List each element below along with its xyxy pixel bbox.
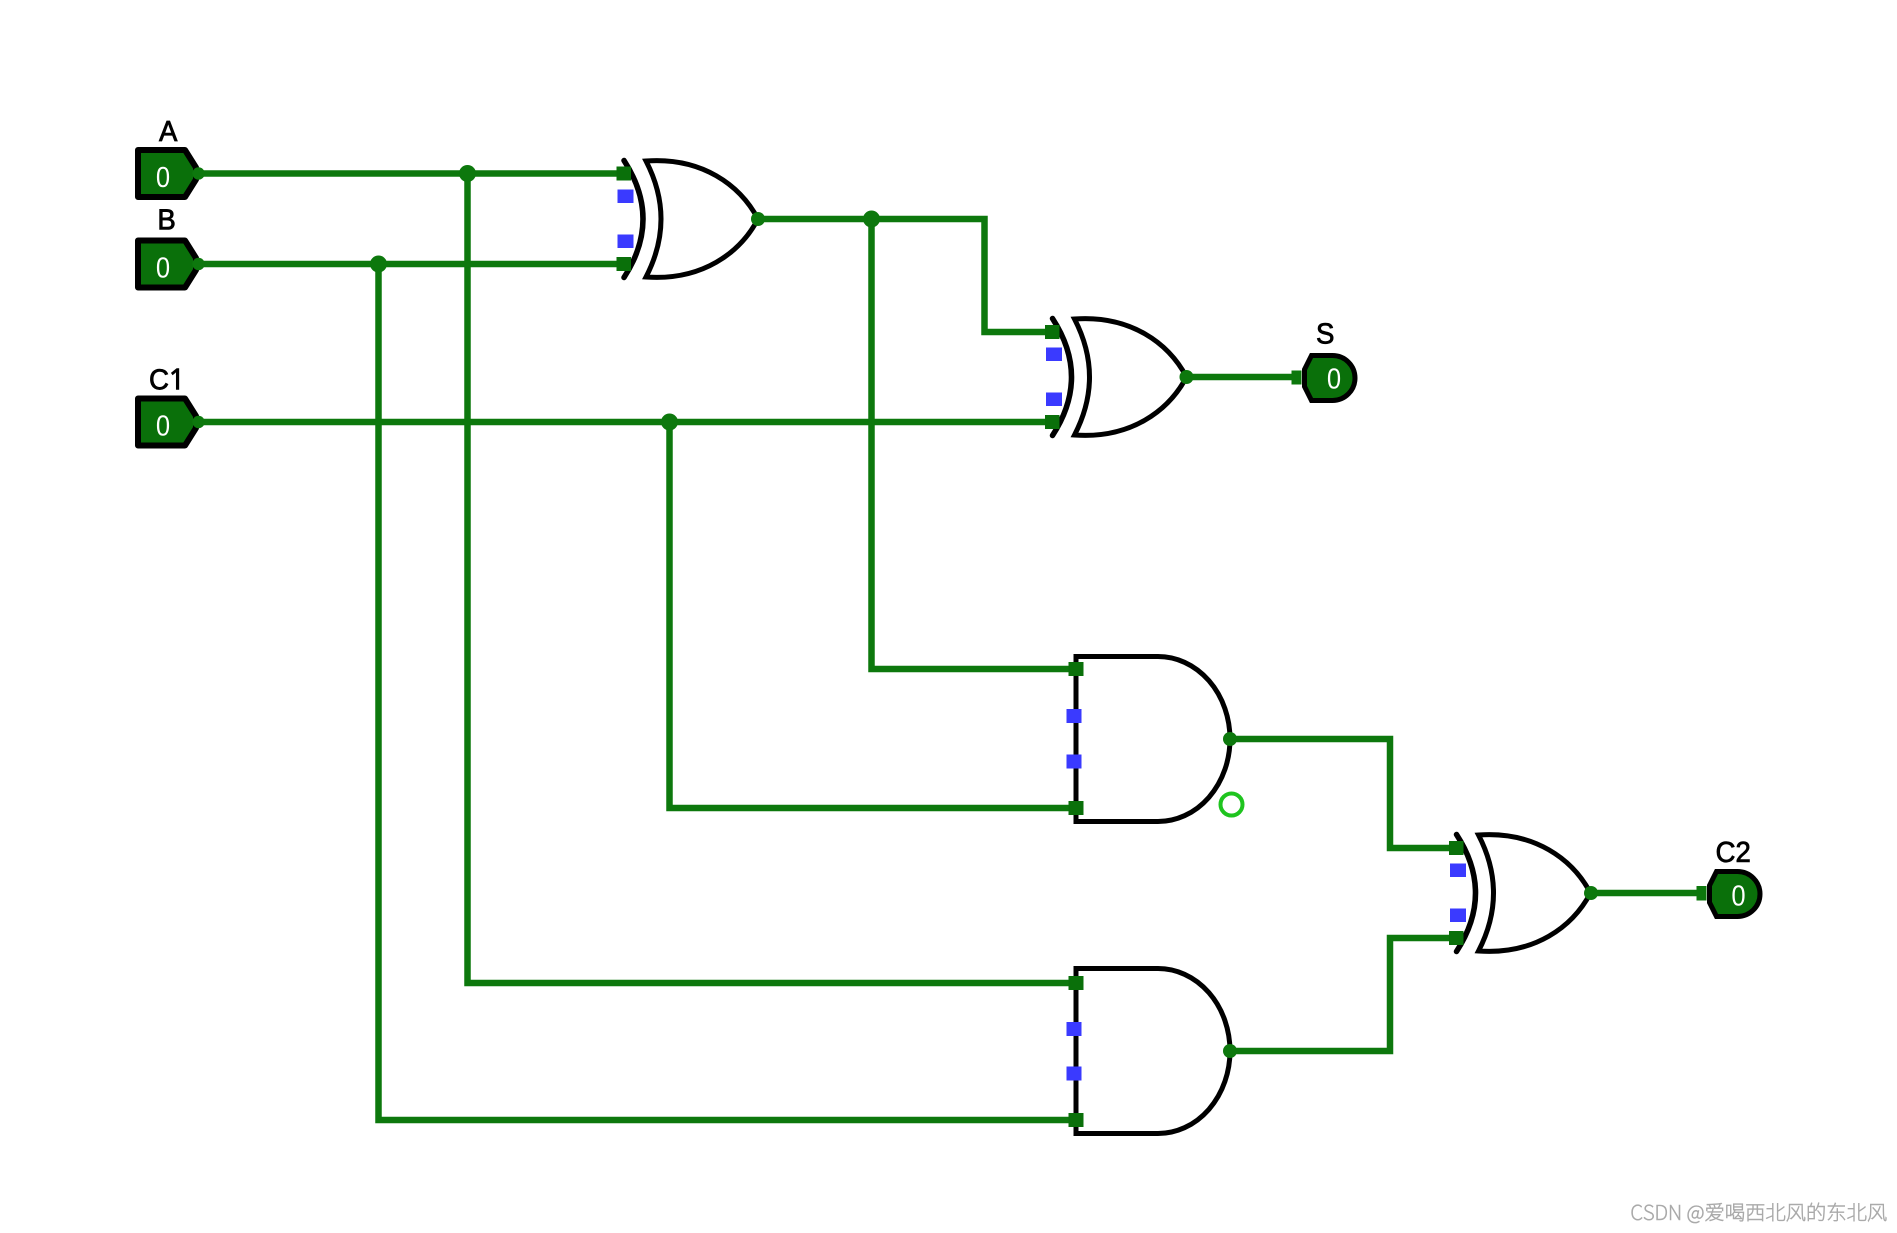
junction node B branch bbox=[370, 256, 387, 273]
wire XOR1 output to XOR2 pin1 bbox=[758, 219, 1055, 332]
label A bbox=[159, 121, 177, 141]
wire A to XOR1 pin1 bbox=[197, 170, 627, 177]
wire C1 branch down to AND1 pin4 bbox=[670, 422, 1079, 808]
and gate U4 (A and B) bbox=[1067, 969, 1238, 1134]
watermark bbox=[1632, 1203, 1888, 1225]
input A bbox=[138, 150, 205, 197]
wire AND1 output to XOR3 pin1 bbox=[1230, 739, 1460, 848]
junction node A branch bbox=[459, 165, 476, 182]
wire A branch down to AND2 pin1 bbox=[468, 174, 1079, 984]
label S bbox=[1317, 323, 1333, 344]
junction node C1 branch bbox=[661, 414, 678, 431]
open node circle near U3 output bbox=[1221, 794, 1243, 816]
xor gate U1 (A xor B) bbox=[617, 161, 766, 278]
wire XOR3 output to C2 bbox=[1591, 890, 1703, 897]
wire B branch down to AND2 pin4 bbox=[379, 264, 1079, 1120]
label C1 bbox=[150, 369, 178, 390]
input B bbox=[138, 241, 205, 288]
xor gate U2 (S = U1 xor C1) bbox=[1045, 319, 1194, 436]
input C1 bbox=[138, 399, 205, 446]
wire AND2 output to XOR3 pin4 bbox=[1230, 938, 1460, 1051]
output C2 bbox=[1697, 872, 1761, 917]
output S bbox=[1292, 356, 1356, 401]
wire XOR1 branch down to AND1 pin1 bbox=[872, 219, 1079, 669]
and gate U3 (U1 and C1) bbox=[1067, 657, 1238, 822]
wire XOR2 output to S bbox=[1187, 374, 1299, 381]
junction node XOR1 branch bbox=[863, 211, 880, 228]
xor gate U5 (C2 = U3 xor U4) bbox=[1449, 835, 1598, 952]
label C2 bbox=[1717, 842, 1749, 863]
wire C1 to XOR2 pin4 bbox=[197, 419, 1055, 426]
label B bbox=[160, 209, 175, 229]
wire B to XOR1 pin4 bbox=[197, 261, 627, 268]
